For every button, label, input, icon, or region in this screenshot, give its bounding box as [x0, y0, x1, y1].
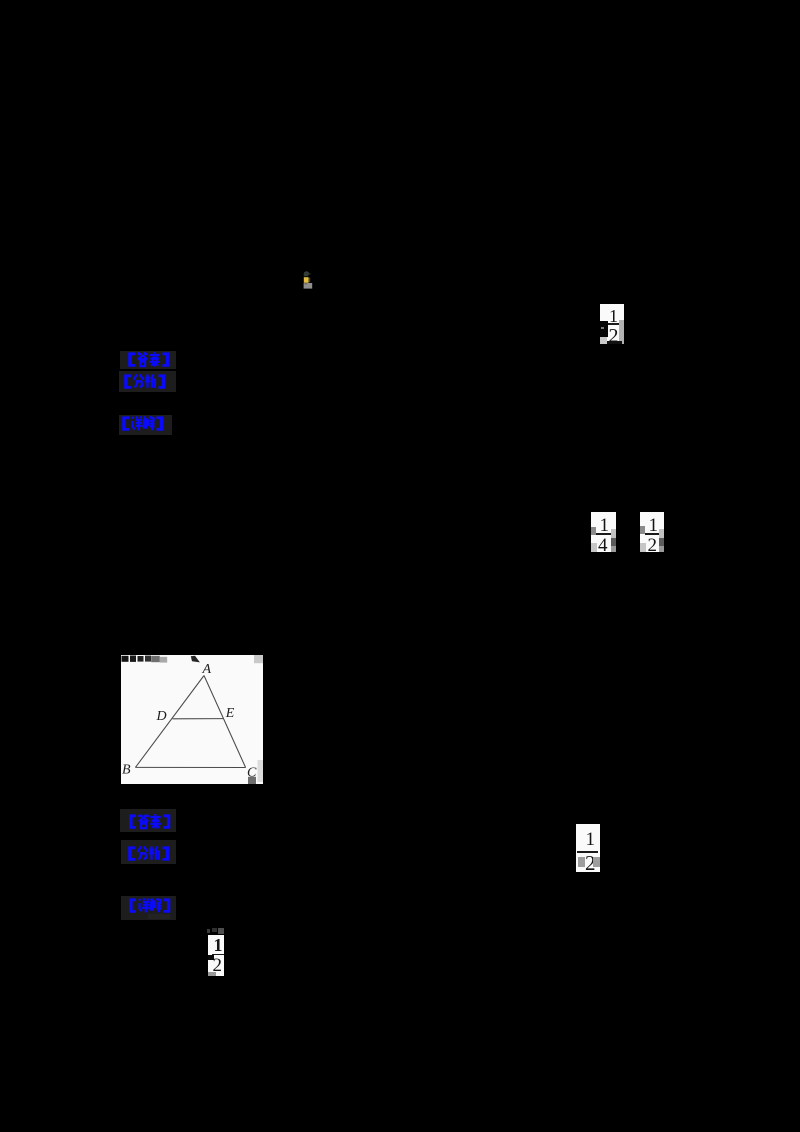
jpeg shading: [619, 320, 624, 344]
formula image 1/4 (problem 2): [591, 512, 616, 552]
blue label [analysis] bottom: [121, 840, 176, 864]
blue label [analysis] top: [119, 371, 176, 392]
vertex labels: [122, 662, 257, 781]
shared glyph defs for blue CJK labels: [0, 0, 1, 1]
formula image 1/2 (problem 1, top right): [600, 304, 624, 344]
svg-text:B: B: [122, 762, 131, 777]
blue label [explain] bottom: [121, 896, 176, 920]
triangle sides: [135, 676, 245, 768]
svg-text:A: A: [202, 662, 212, 677]
bottom-right jpeg marks: [258, 760, 264, 782]
svg-text:D: D: [156, 709, 167, 724]
formula image 1/2 (detail line, left small): [208, 935, 224, 976]
geometry figure: triangle ABC with midsegment DE: [121, 655, 263, 784]
faint residue under explain label: [148, 914, 170, 919]
gray residue above small 1/2: [207, 929, 211, 934]
blue label [answer] top: [120, 351, 176, 369]
svg-text:E: E: [225, 706, 235, 721]
blue label [answer] bottom: [120, 809, 176, 832]
jpeg junk on top edge: [122, 655, 264, 663]
icon: small clipart placeholder at top: [302, 270, 314, 290]
blue label [explain] top: [119, 415, 172, 435]
formula image 1/2 (detail line, right): [576, 824, 600, 872]
formula image 1/2 (problem 2): [640, 512, 664, 552]
